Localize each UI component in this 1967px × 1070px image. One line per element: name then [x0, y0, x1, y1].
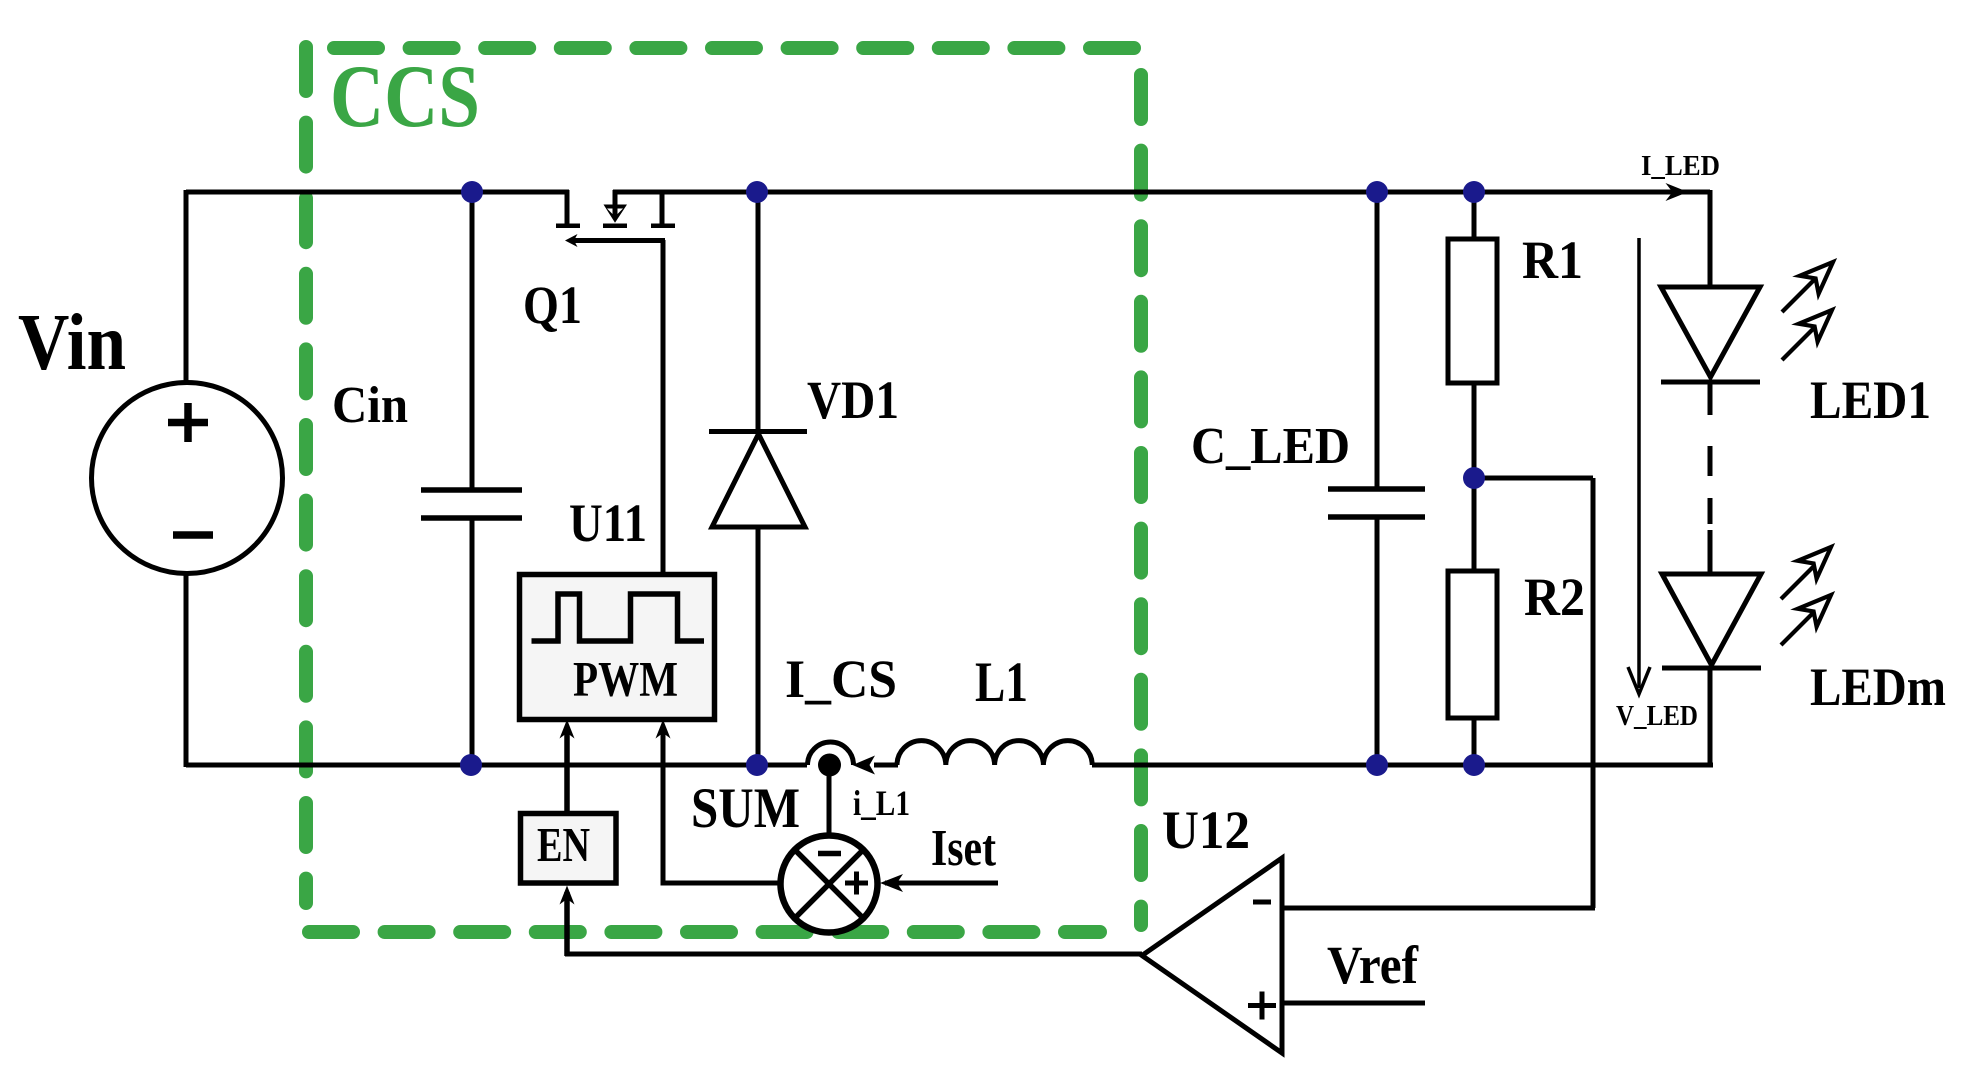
resistor R1 bottom lead: [1472, 383, 1477, 478]
wire bottom bus right: [1092, 763, 1713, 768]
wire Vin top lead: [184, 190, 189, 384]
diode VD1 bottom lead: [756, 527, 761, 765]
PWM block U11: [520, 575, 715, 720]
svg-text:CCS: CCS: [330, 48, 480, 146]
diode VD1 triangle: [712, 434, 805, 527]
svg-text:C_LED: C_LED: [1191, 418, 1350, 475]
SUM plus sign: [845, 872, 868, 895]
node top bus at VD1: [746, 181, 768, 203]
PWM waveform: [532, 594, 705, 641]
arc hop over I_CS node: [808, 742, 854, 765]
arrow feedback to EN: [564, 892, 570, 956]
arrow I_LED on top bus: [1666, 183, 1689, 201]
LEDm triangle: [1662, 574, 1761, 665]
LED1 triangle: [1661, 287, 1760, 377]
Vin plus sign: [168, 403, 208, 442]
CCS dashed border box: [306, 47, 1141, 932]
wire LEDm bottom: [1708, 670, 1713, 767]
svg-text:Q1: Q1: [523, 275, 582, 335]
transistor Q1 drain lead: [565, 190, 570, 224]
arrow EN to PWM: [564, 733, 570, 813]
capacitor Cin bottom lead: [470, 520, 475, 765]
svg-text:L1: L1: [975, 651, 1028, 714]
LED1 emission arrows: [1782, 262, 1833, 312]
svg-text:Vin: Vin: [18, 299, 126, 387]
wire U12 plus input Vref: [1282, 1001, 1425, 1006]
wire feedback from U12: [565, 952, 1142, 957]
node R1 R2 junction: [1463, 467, 1485, 489]
svg-text:Vref: Vref: [1327, 935, 1419, 995]
svg-text:V_LED: V_LED: [1616, 700, 1698, 732]
svg-text:i_L1: i_L1: [853, 783, 910, 823]
wire top bus left: [186, 190, 569, 195]
wire Vin bottom lead: [184, 573, 189, 767]
svg-text:U11: U11: [569, 493, 647, 553]
transistor Q1 source lead: [660, 190, 665, 224]
wire R1R2 junction to U12: [1282, 478, 1595, 908]
transistor Q1 gate bar: [574, 238, 665, 243]
resistor R1 body: [1448, 239, 1497, 383]
capacitor Cin plates: [421, 487, 522, 493]
SUM minus sign: [818, 851, 841, 857]
U12 plus sign: [1248, 992, 1276, 1020]
svg-text:SUM: SUM: [691, 777, 800, 840]
node top bus at R1: [1463, 181, 1485, 203]
U12 minus sign: [1253, 900, 1271, 905]
Vin minus sign: [173, 531, 213, 539]
resistor R1 top lead: [1472, 192, 1477, 239]
svg-text:I_LED: I_LED: [1641, 150, 1720, 182]
summing junction SUM circle: [781, 836, 878, 933]
wire LED string top: [1708, 190, 1713, 288]
capacitor C_LED bottom lead: [1375, 518, 1380, 765]
node bottom bus at VD1: [746, 754, 768, 776]
arrow i_L1 into node: [853, 756, 876, 775]
node bottom bus at Cin: [460, 754, 482, 776]
svg-text:LEDm: LEDm: [1810, 657, 1946, 717]
voltage source Vin circle: [92, 383, 283, 574]
node top bus at Cin: [461, 181, 483, 203]
capacitor C_LED plates: [1328, 486, 1425, 492]
wire Iset input: [885, 881, 998, 886]
node bottom bus at R2: [1463, 754, 1485, 776]
diode VD1 top lead: [756, 192, 761, 430]
svg-text:EN: EN: [537, 817, 590, 872]
svg-text:Iset: Iset: [931, 820, 997, 877]
EN block: [521, 814, 617, 884]
V_LED measurement arrow: [1637, 238, 1641, 688]
transistor Q1 body arrow: [604, 205, 628, 223]
diode VD1 cathode bar: [709, 429, 807, 434]
svg-text:PWM: PWM: [573, 651, 678, 707]
inductor L1: [897, 741, 1092, 765]
LEDm emission arrows: [1781, 547, 1831, 599]
svg-text:R2: R2: [1524, 567, 1585, 627]
svg-text:VD1: VD1: [807, 370, 899, 430]
wire SUM to PWM: [663, 733, 781, 883]
resistor R2 bottom lead: [1472, 718, 1477, 765]
svg-text:I_CS: I_CS: [785, 649, 897, 709]
resistor R2 body: [1448, 571, 1497, 718]
wire top bus right: [613, 190, 1710, 195]
svg-text:LED1: LED1: [1810, 370, 1931, 430]
node bottom bus at C_LED: [1366, 754, 1388, 776]
svg-text:R1: R1: [1522, 230, 1583, 290]
capacitor Cin top lead: [470, 192, 475, 489]
op-amp U12 triangle: [1142, 858, 1282, 1053]
svg-text:U12: U12: [1162, 800, 1250, 860]
wire SUM top lead: [827, 765, 832, 837]
wire LED1 to LEDm dashed: [1708, 384, 1713, 415]
wire Q1 gate to PWM: [661, 240, 666, 575]
capacitor C_LED top lead: [1375, 192, 1380, 488]
resistor R2 top lead: [1472, 478, 1477, 571]
node top bus at C_LED: [1366, 181, 1388, 203]
svg-text:Cin: Cin: [332, 377, 408, 434]
node I_CS black dot: [818, 754, 841, 777]
wire bottom bus left: [186, 763, 807, 768]
